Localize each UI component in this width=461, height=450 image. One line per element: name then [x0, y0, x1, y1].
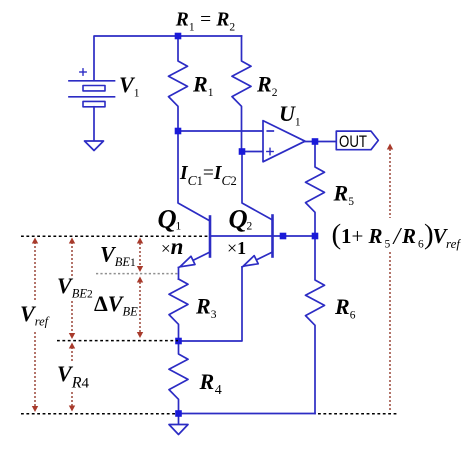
svg-text:VR4: VR4 — [57, 361, 89, 392]
op-amp U1 — [263, 121, 305, 162]
black dotted line top — [21, 236, 397, 413]
wire — [178, 268, 180, 280]
svg-text:×1: ×1 — [227, 238, 246, 258]
svg-text:(: ( — [332, 219, 342, 251]
svg-text:5: 5 — [385, 239, 391, 251]
arrowhead dVBE bottom — [137, 332, 143, 338]
resistor R6 — [306, 236, 325, 414]
svg-text:VBE2: VBE2 — [57, 273, 93, 300]
svg-text:+: + — [352, 224, 364, 248]
node opamp plus — [239, 148, 246, 155]
svg-text:Q1: Q1 — [158, 204, 182, 234]
ground — [169, 425, 188, 435]
arrowhead VR4 top — [69, 343, 75, 349]
OUT flag — [336, 131, 378, 150]
resistor R5 — [306, 142, 325, 237]
svg-text:ref: ref — [446, 236, 461, 251]
svg-text:ΔVBE: ΔVBE — [94, 291, 138, 318]
svg-text:IC1=IC2: IC1=IC2 — [179, 163, 237, 188]
gray dotted line — [96, 273, 178, 275]
wire — [178, 130, 263, 132]
wire — [178, 131, 210, 221]
plus sign of V1 — [80, 69, 86, 75]
transistor Q2 — [271, 216, 274, 257]
arrowhead VR4 bottom — [69, 406, 75, 412]
node squares — [175, 33, 319, 417]
svg-text:×n: ×n — [161, 234, 183, 259]
resistor R1 — [169, 36, 188, 131]
wire bottom — [179, 413, 316, 415]
arrowhead Vref bottom — [32, 406, 38, 412]
svg-text:VBE1: VBE1 — [100, 242, 136, 269]
arrowhead VBE2 bottom — [69, 333, 75, 339]
node top — [175, 33, 182, 40]
svg-text:R1=R2: R1=R2 — [175, 10, 236, 34]
black dotted line mid — [57, 340, 178, 342]
svg-text:Vref: Vref — [20, 301, 50, 328]
wire — [242, 152, 273, 221]
svg-text:1: 1 — [341, 224, 352, 248]
svg-text:Q2: Q2 — [229, 204, 253, 234]
arrow VBE2 — [71, 242, 73, 276]
arrowhead VBE1 top — [137, 238, 143, 244]
node ground — [175, 410, 182, 417]
svg-text:R1: R1 — [192, 72, 214, 99]
svg-text:V1: V1 — [119, 72, 140, 99]
resistor R4 — [169, 341, 188, 414]
arrowhead VBE2 top — [69, 238, 75, 244]
arrowhead dVBE top — [137, 277, 143, 283]
node opamp out — [312, 138, 319, 145]
arrowhead Vref top — [32, 238, 38, 244]
arrow VR4 — [71, 347, 73, 363]
wire ground stem — [178, 414, 180, 425]
node base b — [312, 233, 319, 240]
resistor R2 — [232, 36, 251, 152]
ground — [85, 141, 104, 151]
arrow VBE1 — [139, 243, 141, 266]
svg-text:U1: U1 — [279, 101, 301, 128]
svg-text:R: R — [368, 224, 383, 248]
svg-text:R5: R5 — [333, 181, 355, 208]
wire — [179, 267, 243, 341]
arrow Vref — [34, 242, 36, 300]
wire — [305, 141, 336, 143]
svg-text:R4: R4 — [199, 369, 222, 398]
svg-text:R: R — [401, 224, 416, 248]
arrow OUT vertical — [389, 149, 391, 218]
wire — [94, 36, 242, 80]
wire base line — [210, 235, 315, 237]
svg-text:R6: R6 — [334, 294, 356, 321]
svg-text:R3: R3 — [195, 294, 217, 321]
arrowhead VBE1 bottom — [137, 266, 143, 272]
transistor Q1 — [209, 217, 212, 257]
battery V1 — [69, 81, 115, 97]
black dotted line bottom — [21, 413, 175, 415]
svg-text:OUT: OUT — [339, 132, 367, 151]
node R1 bottom — [175, 128, 182, 135]
arrow dVBE — [139, 282, 141, 333]
node base a — [280, 233, 287, 240]
svg-text:R2: R2 — [256, 72, 278, 99]
resistor R3 — [169, 279, 188, 341]
label output equation — [332, 219, 461, 252]
wire — [93, 107, 95, 141]
red annotation arrows — [35, 149, 390, 410]
svg-text:/: / — [392, 224, 403, 250]
node R3 R4 — [175, 338, 182, 345]
wire — [242, 151, 263, 153]
arrowhead OUT line — [387, 144, 393, 150]
